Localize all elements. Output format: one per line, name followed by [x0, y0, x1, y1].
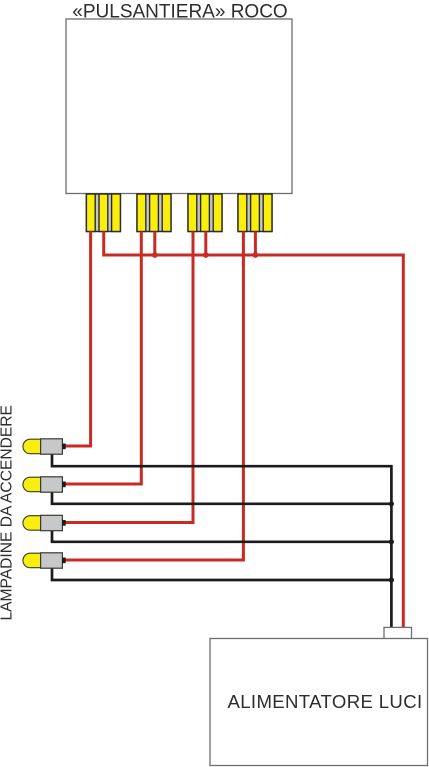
black return wire lamp LP3 to bus [52, 530, 391, 542]
svg-text:ALIMENTATORE LUCI: ALIMENTATORE LUCI [227, 691, 422, 712]
red junction dot at S4 stub [253, 252, 259, 258]
red wire S3 pin1 to lamp LP3 [66, 232, 194, 523]
red junction dot at S3 stub [203, 252, 209, 258]
red stub wire S4 pin2 to bus [254, 232, 257, 256]
red wire S2 pin1 to lamp LP2 [66, 232, 142, 485]
pin 3 of S1 [112, 194, 121, 232]
pin 3 of S2 [162, 194, 171, 232]
pin 3 of S4 [263, 194, 272, 232]
black junction dot LP4 [389, 577, 394, 582]
red wire S1 pin1 to lamp LP1 [66, 232, 91, 447]
red stub wire S3 pin2 to bus [204, 232, 207, 256]
red supply bus wire (from S1 pin2 to alimentatore) [104, 232, 404, 629]
lamp LP1 [23, 439, 66, 454]
black return wire lamp LP4 to bus [52, 568, 391, 580]
push-button connector S1 (group 1 pins) [86, 194, 120, 232]
lamp LP3 [23, 515, 66, 530]
pin 1 of S3 [188, 194, 197, 232]
label ALIMENTATORE LUCI [227, 691, 422, 712]
pulsantiera box [66, 19, 292, 194]
black junction dot LP2 [389, 501, 394, 506]
push-button connector S2 (group 2 pins) [137, 194, 171, 232]
red junction dot at S2 stub [152, 252, 158, 258]
supply input connector on alimentatore [384, 627, 412, 638]
black return wire lamp LP1 to bus [52, 454, 391, 628]
black junction dot LP3 [389, 539, 394, 544]
label «PULSANTIERA» ROCO [72, 1, 287, 22]
push-button connector S3 (group 3 pins) [188, 194, 222, 232]
push-button connector S4 (group 4 pins) [238, 194, 272, 232]
label LAMPADINE DA ACCENDERE [0, 405, 16, 620]
svg-text:LAMPADINE DA ACCENDERE: LAMPADINE DA ACCENDERE [0, 405, 16, 620]
pin 2 of S1 [99, 194, 108, 232]
lamp LP2 [23, 477, 66, 492]
alimentatore luci box [210, 639, 428, 766]
svg-text:«PULSANTIERA» ROCO: «PULSANTIERA» ROCO [72, 1, 287, 22]
pin 2 of S2 [150, 194, 159, 232]
pin 2 of S4 [251, 194, 260, 232]
pin 3 of S3 [213, 194, 222, 232]
lamp LP4 [23, 553, 66, 568]
black return wire lamp LP2 to bus [52, 492, 391, 504]
pin 1 of S1 [86, 194, 95, 232]
pin 1 of S4 [238, 194, 247, 232]
pin 1 of S2 [137, 194, 146, 232]
red wire S4 pin1 to lamp LP4 [66, 232, 244, 561]
pin 2 of S3 [201, 194, 210, 232]
red stub wire S2 pin2 to bus [153, 232, 156, 256]
